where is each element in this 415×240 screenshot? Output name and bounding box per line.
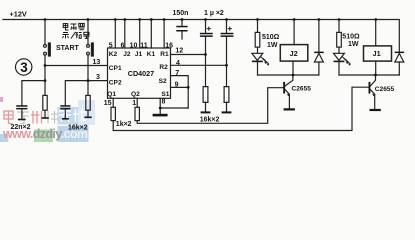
junction CP2 node	[87, 79, 90, 82]
transistor Q4 C2655	[369, 82, 371, 94]
svg-text:11: 11	[140, 42, 148, 49]
svg-text:16k×2: 16k×2	[68, 125, 88, 132]
node line 1 (collector node of Q3)	[258, 74, 319, 76]
svg-text:R1: R1	[160, 51, 169, 58]
svg-text:K2: K2	[109, 51, 118, 58]
circled 3 marker	[16, 59, 32, 75]
svg-text:16: 16	[165, 42, 173, 49]
junction CP1 node	[44, 64, 47, 67]
svg-text:1k×2: 1k×2	[116, 121, 132, 128]
resistor R6 1k	[135, 107, 139, 120]
ground under R7	[201, 111, 211, 113]
LED D1	[252, 53, 263, 60]
IC U1 CD4027 box	[108, 48, 171, 98]
junction rail-C4	[204, 18, 207, 21]
relay J1	[364, 46, 392, 61]
svg-text:CP2: CP2	[109, 79, 122, 86]
svg-text:S1: S1	[161, 91, 169, 98]
svg-text:16k×2: 16k×2	[200, 116, 220, 123]
junction rail-pin16	[163, 18, 166, 21]
junction Q3 collector node	[292, 74, 295, 77]
resistor R3 16k	[44, 81, 46, 118]
junction rail-pin11	[150, 18, 153, 21]
ground IC	[153, 114, 168, 117]
capacitor C1 22n	[16, 105, 27, 107]
svg-text:22n×2: 22n×2	[11, 124, 31, 131]
svg-text:K1: K1	[147, 51, 156, 58]
svg-text:CP1: CP1	[109, 65, 122, 72]
capacitor C3 150n	[181, 20, 183, 40]
wire Q2 to base of Q3	[137, 88, 283, 124]
svg-text:+12V: +12V	[10, 10, 27, 19]
junction Q4 collector node	[374, 74, 377, 77]
resistor R10 510 ohm	[338, 20, 340, 54]
wire switch1 branch	[44, 20, 46, 81]
svg-text:9: 9	[175, 81, 179, 88]
svg-text:Q1: Q1	[107, 91, 116, 98]
resistor R7 16k	[203, 87, 208, 103]
svg-text:1W: 1W	[267, 42, 278, 49]
svg-text:5: 5	[109, 42, 113, 49]
wire CP2 left piece	[22, 81, 45, 106]
junction rail-C3	[181, 18, 184, 21]
watermark colored blocks	[0, 97, 95, 142]
svg-text:13: 13	[93, 59, 101, 66]
wire pin15	[112, 98, 114, 107]
svg-text:C2655: C2655	[292, 86, 312, 93]
svg-text:C2655: C2655	[375, 86, 395, 93]
junction pin9-pin7	[187, 86, 190, 89]
diode D4	[398, 62, 400, 75]
svg-text:S2: S2	[159, 78, 167, 85]
junction pin8-ground	[159, 107, 162, 110]
ground under R8	[222, 111, 232, 113]
svg-text:15: 15	[104, 100, 112, 107]
node line 2 (collector node of Q4)	[339, 74, 399, 76]
capacitor C5 1u	[226, 20, 228, 87]
junction pin4-C5	[225, 64, 228, 67]
ground under R4	[85, 117, 92, 119]
wire pin4 R2	[171, 64, 227, 66]
junction rail-pin10	[138, 18, 141, 21]
wire pin6	[124, 20, 126, 49]
wire pin12 R1	[171, 54, 206, 56]
wire pin8 to ground	[160, 98, 188, 114]
junction rail-switch1	[44, 18, 47, 21]
junction pin12-C4	[204, 53, 207, 56]
svg-text:1: 1	[132, 100, 136, 107]
svg-text:START: START	[56, 45, 80, 52]
svg-text:3: 3	[20, 60, 28, 75]
junction rail-R10	[338, 18, 341, 21]
svg-text:R2: R2	[159, 64, 168, 71]
label current display/set (chinese pseudo-glyphs)	[62, 23, 89, 39]
wire Q1 to base of Q4	[113, 87, 368, 130]
svg-text:J2: J2	[290, 49, 298, 58]
ground under R3	[42, 117, 49, 119]
+12V rail	[3, 20, 399, 52]
svg-text:6: 6	[121, 42, 125, 49]
resistor R9 510 ohm	[257, 20, 259, 54]
junction rail-switch2	[87, 18, 90, 21]
junction rail-pin6	[123, 18, 126, 21]
junction rail-D2	[318, 18, 321, 21]
svg-text:7: 7	[175, 70, 179, 77]
ground under Q3	[284, 108, 295, 110]
switch START S1	[44, 45, 47, 48]
transistor Q3 C2655	[283, 82, 285, 94]
svg-text:J2: J2	[123, 51, 131, 58]
junction rail-C5	[225, 18, 228, 21]
junction rail-R9	[256, 18, 259, 21]
wire pin7 S2	[171, 76, 189, 108]
svg-text:510Ω: 510Ω	[262, 34, 280, 41]
wire pin10	[139, 20, 141, 49]
wire pin16	[163, 20, 165, 49]
resistor R8 16k	[224, 87, 229, 103]
capacitor C4 1u	[205, 20, 207, 87]
diode D2	[318, 20, 320, 76]
capacitor C2 22n	[60, 105, 70, 107]
wire pin11	[150, 20, 152, 49]
wire pin5	[114, 20, 116, 49]
svg-text:J1: J1	[135, 51, 143, 58]
svg-text:J1: J1	[373, 49, 381, 58]
svg-text:8: 8	[162, 98, 166, 105]
svg-text:1W: 1W	[348, 41, 359, 48]
resistor R5 1k	[111, 107, 115, 120]
svg-text:CD4027: CD4027	[128, 69, 154, 78]
relay J2	[280, 45, 308, 62]
svg-text:1 µ ×2: 1 µ ×2	[204, 10, 224, 17]
junction rail-J2	[293, 18, 296, 21]
wire switch2 branch	[87, 20, 89, 81]
wire pin1	[136, 98, 138, 107]
resistor R4 16k	[87, 81, 89, 117]
junction rail-pin5	[114, 18, 117, 21]
svg-text:510Ω: 510Ω	[342, 33, 360, 40]
svg-text:10: 10	[130, 42, 138, 49]
svg-text:Q2: Q2	[131, 91, 140, 98]
svg-text:150n: 150n	[173, 10, 189, 17]
ground under Q4	[370, 109, 381, 111]
junction rail-J1	[374, 18, 377, 21]
svg-text:12: 12	[175, 48, 183, 55]
watermark chinese characters (pseudo-glyphs)	[4, 109, 87, 124]
wire CP2 right piece pin3	[65, 81, 107, 106]
ground under C1	[18, 119, 26, 121]
wire pin9 S1	[171, 86, 189, 88]
junction switch1-CP2row	[44, 79, 47, 82]
svg-text:3: 3	[96, 74, 100, 81]
wire CP1 line pin13	[45, 65, 108, 67]
switch display/set S2	[87, 45, 90, 48]
ground under C2	[62, 118, 69, 120]
svg-text:4: 4	[176, 60, 180, 67]
LED D3	[334, 53, 345, 60]
